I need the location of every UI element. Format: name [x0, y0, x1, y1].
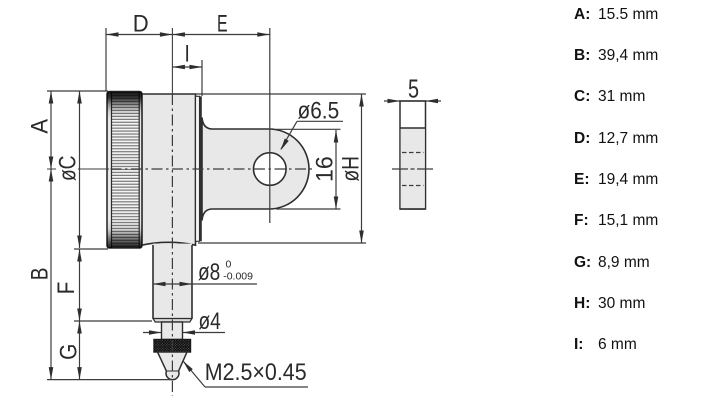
o6.5 leader arrow [279, 139, 289, 152]
dim I line [172, 66, 202, 68]
svg-text:E: E [217, 10, 228, 37]
ext 16 top [276, 128, 341, 130]
D arrows [106, 32, 119, 37]
16 arrows [334, 130, 339, 143]
ext line bezel bottom [74, 248, 108, 250]
legend [574, 0, 704, 1]
E arrows [172, 32, 185, 37]
svg-text:A: A [25, 118, 52, 133]
svg-text:-0.009: -0.009 [223, 271, 253, 283]
F arrows [77, 249, 82, 262]
stem chamfer [153, 319, 192, 323]
contact ball tip joint line [166, 370, 178, 372]
5 arrows (outside pointing in) [388, 99, 401, 104]
ext oH bottom [198, 242, 366, 244]
dim B line [50, 169, 52, 380]
svg-text:5: 5 [408, 74, 419, 103]
hidden hole lines [402, 152, 424, 154]
ext line I right / flange face [201, 60, 203, 96]
contact point cone [158, 352, 188, 380]
C arrows [77, 91, 82, 104]
svg-text:ø4: ø4 [199, 307, 221, 335]
ext line lug hole center [269, 28, 271, 223]
o6.5 leader [297, 120, 343, 122]
G arrows [77, 321, 82, 334]
side view centerline [392, 168, 434, 170]
ext oH top [196, 93, 366, 95]
lug hole o6.5 [253, 153, 286, 186]
dim o4 line right tail [183, 332, 226, 334]
o4 section [162, 322, 183, 340]
ext 16 bottom [276, 208, 341, 210]
horizontal centerline [47, 168, 109, 170]
dim C line [79, 91, 81, 248]
svg-text:D: D [133, 9, 149, 36]
svg-text:M2.5×0.45: M2.5×0.45 [205, 358, 307, 386]
svg-text:B: B [25, 267, 53, 280]
spindle stem o8 [153, 244, 192, 319]
dim o4 line left tail [143, 332, 162, 334]
dim o8 line [153, 283, 257, 285]
side view dim 5 line [384, 100, 441, 102]
oH arrows [359, 94, 364, 107]
dim E line [172, 34, 269, 36]
knurled bezel [107, 92, 142, 249]
dim G line [79, 321, 81, 380]
svg-text:0: 0 [226, 259, 232, 271]
ext line tip [47, 379, 172, 381]
svg-text:16: 16 [311, 156, 339, 182]
ext line stem bottom [74, 320, 152, 322]
lug plate [202, 118, 309, 221]
svg-text:øC: øC [53, 155, 81, 181]
svg-text:G: G [54, 344, 82, 360]
knurled nut [154, 340, 191, 353]
dim A line [50, 91, 52, 169]
flange dark band [200, 96, 202, 241]
svg-text:ø6.5: ø6.5 [298, 96, 340, 124]
ext line bezel left [105, 28, 107, 91]
vertical centerline of spindle [171, 28, 173, 94]
svg-text:ø8: ø8 [198, 258, 220, 286]
M2.5 leader arrow [181, 360, 193, 373]
dim F line [79, 249, 81, 321]
dim oH line [361, 94, 363, 243]
dim D line [106, 34, 172, 36]
o8 arrows [153, 282, 166, 287]
svg-text:øH: øH [336, 156, 364, 181]
M2.5 leader [184, 362, 206, 388]
dim 16 line [335, 130, 337, 209]
svg-text:I: I [185, 39, 190, 67]
B arrows [49, 169, 54, 182]
I arrows [172, 65, 185, 70]
label oC (rotated, white patch) [56, 150, 78, 187]
o4 arrows (outside pointing in) [149, 330, 162, 335]
body cylinder [142, 94, 196, 245]
A arrows [49, 91, 54, 104]
svg-text:F: F [52, 282, 79, 295]
top ext line y=91 [47, 90, 108, 92]
flange light strip [196, 96, 200, 241]
